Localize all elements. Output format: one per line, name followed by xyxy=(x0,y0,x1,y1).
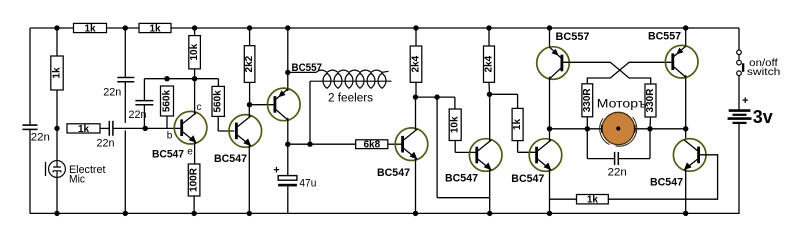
svg-text:2 feelers: 2 feelers xyxy=(328,93,373,105)
wire R15 to motor left xyxy=(586,117,588,129)
svg-text:1k: 1k xyxy=(512,119,523,131)
wire Q7 base cross to R16 xyxy=(563,62,651,84)
resistor R1 1k top-left xyxy=(74,23,107,32)
node Q4 collector junction xyxy=(413,94,418,99)
node Q3 collector junction xyxy=(285,142,290,147)
node top rail x685 xyxy=(683,25,688,30)
svg-text:BC547: BC547 xyxy=(152,149,184,161)
resistor R14 1k xyxy=(512,108,523,140)
wire Q3 collector to C5 xyxy=(287,144,289,175)
resistor R12 10k xyxy=(449,109,461,141)
electret microphone MIC1 xyxy=(46,161,106,186)
node top rail x549 xyxy=(547,25,552,30)
node Q3 base node xyxy=(247,102,252,107)
wire R6 to base xyxy=(166,116,168,128)
resistor R9 2k2 xyxy=(244,46,255,83)
resistor R17 1k xyxy=(577,195,609,204)
svg-text:10k: 10k xyxy=(189,43,200,60)
svg-text:22n: 22n xyxy=(608,166,627,178)
node top rail x57 xyxy=(54,25,59,30)
node Q5 collector junction xyxy=(487,92,492,97)
node top rail x125 xyxy=(123,25,128,30)
resistor R13 2k4 xyxy=(484,46,495,82)
motor M1 xyxy=(597,96,648,146)
node Q9 emitter ground xyxy=(683,211,688,216)
wire C5 to ground xyxy=(287,186,289,213)
svg-text:2k4: 2k4 xyxy=(484,55,495,72)
svg-text:47u: 47u xyxy=(299,177,316,189)
node motor left drive xyxy=(547,126,552,131)
node Q1 collector xyxy=(192,76,197,81)
node R6 top xyxy=(164,76,169,81)
wire decoupling column lower xyxy=(124,82,126,214)
node top rail x416 xyxy=(413,25,418,30)
resistor R15 330R xyxy=(582,84,593,117)
svg-text:2k4: 2k4 xyxy=(411,55,422,72)
node Q3 emitter feeler xyxy=(285,70,290,75)
svg-text:560k: 560k xyxy=(162,89,173,112)
wire R13 to Q5 collector node xyxy=(488,82,491,94)
wire mic to base node xyxy=(56,128,58,160)
svg-text:BC547: BC547 xyxy=(445,173,478,185)
wire to R12 xyxy=(454,97,456,109)
wire C3 to base xyxy=(143,105,145,129)
svg-text:e: e xyxy=(187,147,193,158)
wire Q6 collector xyxy=(549,129,551,142)
wire base net Q1 xyxy=(114,127,181,129)
transistor Q4 BC547 xyxy=(395,128,428,161)
wire Q6 emitter xyxy=(549,168,551,213)
svg-text:BC557: BC557 xyxy=(648,31,681,43)
wire switch to battery xyxy=(738,76,740,110)
wire R7 to ground xyxy=(193,196,195,213)
wire Q9 base loop xyxy=(608,155,717,199)
svg-text:Mic: Mic xyxy=(69,174,85,186)
svg-text:b: b xyxy=(167,131,173,142)
wire R8 to Q2 base xyxy=(218,116,234,131)
battery BT1 3v xyxy=(728,95,774,127)
svg-text:+: + xyxy=(742,95,748,107)
svg-text:22n: 22n xyxy=(31,131,50,143)
node top rail x249 xyxy=(247,25,252,30)
wire rail to switch xyxy=(738,28,740,50)
capacitor C4 22n decoupling xyxy=(103,78,134,99)
transistor Q5 BC547 xyxy=(469,139,502,172)
capacitor C5 47u electrolytic xyxy=(273,165,316,190)
transistor Q3 BC557 xyxy=(268,88,301,121)
node decoupling ground xyxy=(123,211,128,216)
wire R10 to Q4 base xyxy=(388,143,403,145)
svg-text:c: c xyxy=(197,102,202,113)
svg-text:3v: 3v xyxy=(753,106,774,127)
wire Q5 collector xyxy=(489,94,491,142)
svg-text:+: + xyxy=(273,165,279,177)
resistor R3 1k vertical xyxy=(51,56,63,90)
wire collector node to R10 xyxy=(288,143,356,145)
wire R4 to C2 xyxy=(100,127,109,129)
wire R11 to Q4 collector node xyxy=(415,82,417,97)
node motor right junction xyxy=(647,126,652,131)
wire motor to right drive node xyxy=(635,128,686,130)
resistor R10 6k8 xyxy=(356,140,388,149)
svg-text:560k: 560k xyxy=(213,90,224,113)
wire R17 to Q6 emitter xyxy=(550,198,577,200)
capacitor C6 22n motor xyxy=(587,129,650,179)
wire +3V top rail xyxy=(30,27,739,29)
capacitor C3 22n feedback xyxy=(129,101,154,121)
transistor Q8 BC557 xyxy=(665,45,698,78)
svg-text:Моторъ: Моторъ xyxy=(597,96,648,110)
svg-text:330R: 330R xyxy=(582,88,593,113)
switch SW1 on/off xyxy=(737,50,781,78)
wire Q8 base cross to R15 xyxy=(587,62,671,84)
capacitor C1 22n xyxy=(23,125,50,143)
wire rail to R5 xyxy=(194,28,196,36)
resistor R7 100R xyxy=(188,164,200,196)
svg-text:6k8: 6k8 xyxy=(363,140,380,151)
wire R12 to Q5 base xyxy=(455,141,476,153)
node feeler drop junction xyxy=(307,142,312,147)
svg-text:switch: switch xyxy=(747,66,781,78)
wire Q1 collector xyxy=(194,79,196,115)
node Q2 emitter ground xyxy=(247,211,252,216)
resistor R6 560k xyxy=(161,86,174,116)
svg-text:BC547: BC547 xyxy=(650,176,683,188)
wire drive node to motor xyxy=(550,128,602,130)
wire collector feedback net xyxy=(144,79,218,101)
wire left column with C1 xyxy=(29,28,31,213)
svg-text:BC547: BC547 xyxy=(511,173,544,185)
svg-text:22n: 22n xyxy=(97,137,115,149)
wire Q7 collector xyxy=(549,77,551,129)
svg-text:22n: 22n xyxy=(103,86,121,98)
wire rail to feeler node xyxy=(287,28,289,72)
node mic ground xyxy=(54,211,59,216)
wire R16 to motor right xyxy=(649,117,652,129)
svg-text:1k: 1k xyxy=(84,23,96,34)
node Q5 emitter ground xyxy=(487,211,492,216)
transistor Q7 BC557 xyxy=(537,47,570,80)
node top rail x194 xyxy=(192,25,197,30)
wire mic column middle xyxy=(56,90,58,128)
wire feeler to collector node xyxy=(309,81,311,144)
wire Q9 emitter xyxy=(685,168,687,213)
svg-text:1k: 1k xyxy=(78,124,90,135)
node Q4 emitter ground xyxy=(413,211,418,216)
svg-text:2k2: 2k2 xyxy=(244,55,255,72)
node Q6 emitter ground xyxy=(547,211,552,216)
wire Q5 emitter xyxy=(489,168,491,213)
svg-text:1k: 1k xyxy=(149,23,161,34)
wire rail to Q7 emitter xyxy=(549,28,551,47)
transistor Q9 BC547 xyxy=(673,139,706,172)
wire mic to ground xyxy=(56,177,58,213)
wire base node to Q3 xyxy=(250,104,274,106)
svg-text:BC547: BC547 xyxy=(377,167,410,179)
wire R5 to collector node xyxy=(194,69,196,79)
wire Q3 collector xyxy=(287,118,289,144)
wire collector node to R14 xyxy=(490,94,518,108)
node C3 to base junction xyxy=(143,126,148,131)
svg-text:10k: 10k xyxy=(450,116,461,133)
node motor right drive xyxy=(683,126,688,131)
resistor R5 10k xyxy=(189,36,201,69)
svg-text:BC557: BC557 xyxy=(556,31,590,43)
svg-text:1k: 1k xyxy=(52,67,63,79)
transistor Q1 BC547 xyxy=(174,111,207,144)
wire Q4 collector xyxy=(415,97,417,131)
wire collector node right xyxy=(416,96,455,98)
node top rail x287 xyxy=(285,25,290,30)
transistor Q2 BC547 xyxy=(229,115,262,148)
wire rail to R13 xyxy=(488,28,490,46)
node mic junction xyxy=(54,126,59,131)
wire R9 to Q3 base node xyxy=(249,82,251,104)
resistor R2 1k top-second xyxy=(139,23,171,32)
resistor R8 560k xyxy=(212,86,224,116)
wire Q4 emitter xyxy=(415,158,417,214)
transistor Q6 BC547 xyxy=(529,139,562,172)
wire battery to bottom rail xyxy=(738,124,740,214)
wire rail to R9 xyxy=(249,28,251,46)
wire mic column upper xyxy=(56,28,58,56)
wire Q8 collector to Q9 collector xyxy=(685,75,687,138)
node hysteresis junction xyxy=(434,94,439,99)
wire R14 to Q6 base xyxy=(518,141,537,153)
svg-text:100R: 100R xyxy=(189,167,200,192)
resistor R16 330R xyxy=(645,84,656,117)
wire hysteresis drop xyxy=(437,97,490,198)
wire Q1 emitter to R7 xyxy=(194,141,196,164)
node top rail x489 xyxy=(486,25,491,30)
wire rail to R11 xyxy=(415,28,417,46)
node motor left junction xyxy=(585,126,590,131)
wire 0V bottom rail xyxy=(30,212,739,214)
resistor R4 1k horizontal xyxy=(67,124,100,133)
wire Q2 emitter xyxy=(248,144,250,213)
wire Q2 collector xyxy=(248,105,250,118)
inductor L1 feeler coil xyxy=(288,70,392,104)
svg-text:BC547: BC547 xyxy=(214,153,247,165)
resistor R11 2k4 xyxy=(410,46,422,82)
wire rail to Q8 emitter xyxy=(685,28,687,46)
capacitor C2 22n series xyxy=(97,121,115,150)
node Q1 emitter ground xyxy=(191,211,196,216)
svg-text:1k: 1k xyxy=(587,195,599,206)
wire decoupling column upper xyxy=(124,28,126,77)
wire feeler node to Q3 emitter xyxy=(287,72,289,91)
